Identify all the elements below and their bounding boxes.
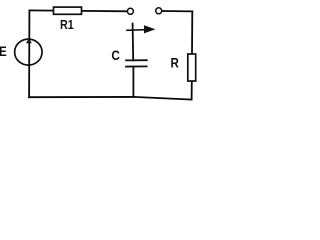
wire R1 to switch left contact: [82, 10, 128, 12]
wire switch pole / capacitor top lead: [132, 24, 135, 61]
wire left vertical: [28, 10, 30, 97]
resistor R: [188, 54, 196, 81]
switch contact left (open circle): [127, 8, 133, 14]
wire right vertical below R: [191, 81, 193, 100]
svg-text:E: E: [0, 44, 7, 59]
capacitor C: [125, 60, 148, 66]
wire top-left segment: [29, 9, 53, 11]
resistor R1: [54, 7, 82, 14]
wire bottom: [29, 97, 192, 100]
wire right vertical above R: [191, 11, 193, 54]
svg-text:R: R: [171, 55, 179, 70]
svg-text:R1: R1: [60, 17, 74, 32]
voltage source E: [15, 38, 42, 65]
switch throw arrow: [126, 25, 155, 33]
wire switch right contact to top-right corner: [162, 10, 192, 12]
switch contact right (open circle): [156, 8, 162, 14]
svg-text:C: C: [111, 47, 119, 63]
wire capacitor bottom lead: [132, 67, 134, 97]
